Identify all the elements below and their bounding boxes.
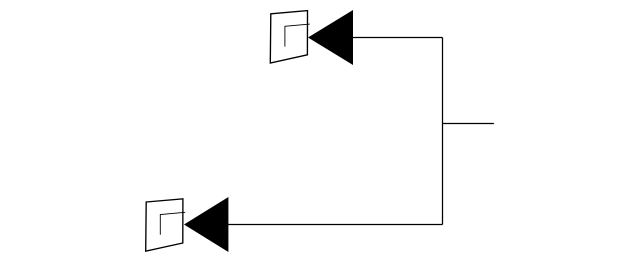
wire: U1 output to trunk <box>353 37 443 39</box>
buffer amplifier U2 (bottom triangle) <box>184 197 228 252</box>
buffer amplifier U1 (top triangle) <box>308 10 353 65</box>
loop antenna ANT2 (bottom) <box>146 199 186 251</box>
wire: input stub <box>443 123 494 125</box>
loop antenna ANT1 (top) <box>270 11 310 63</box>
wire: vertical trunk <box>442 38 444 225</box>
wire: U2 output to trunk <box>228 224 442 226</box>
